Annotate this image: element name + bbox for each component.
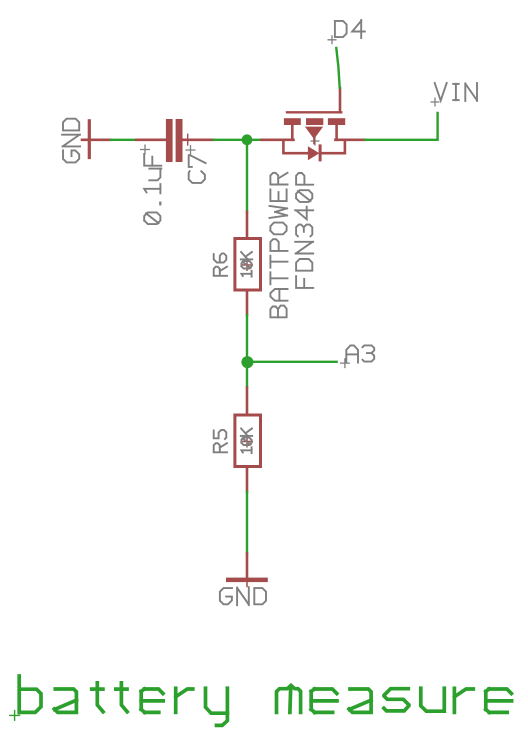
label 10K of R5 (rotated)	[241, 429, 252, 454]
label BATTPOWER (rotated)	[270, 173, 288, 318]
wire GND to C7	[111, 139, 136, 141]
wire node BATT to R6	[246, 145, 248, 212]
resistor R5 10K	[235, 388, 261, 493]
label VIN	[431, 83, 478, 107]
label C7 (rotated)	[186, 145, 206, 183]
label 10K of R6 (rotated)	[241, 252, 252, 277]
wire source to VIN	[365, 113, 438, 140]
capacitor C7 0.1uF	[136, 119, 213, 162]
label GND (bottom)	[220, 587, 266, 605]
transistor BATTPOWER FDN340P (p-channel MOSFET)	[262, 88, 366, 161]
resistor R6 10K	[235, 212, 261, 315]
label 0.1uF (rotated)	[140, 145, 161, 225]
wire R6 to node A3	[246, 315, 248, 357]
title origin cross	[9, 710, 20, 721]
label GND (left, rotated)	[62, 119, 80, 163]
label D4	[328, 20, 365, 44]
wire node A3 to R5	[246, 368, 248, 388]
ground symbol GND (bottom)	[226, 554, 268, 587]
wire gate to D4	[336, 48, 339, 88]
label A3	[340, 345, 374, 368]
wire node A3 to label	[247, 361, 336, 363]
title text: battery measure	[19, 676, 511, 725]
label R6 (rotated)	[214, 253, 227, 275]
wire R5 to GND	[246, 492, 248, 554]
supply symbol GND (left)	[82, 119, 111, 159]
label FDN340P (rotated)	[295, 173, 313, 288]
wire C7 to node BATT	[214, 139, 262, 141]
label R5 (rotated)	[214, 430, 227, 452]
junction node BATT	[242, 134, 253, 145]
junction node A3	[241, 356, 253, 368]
